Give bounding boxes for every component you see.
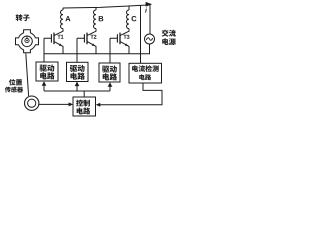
wire current sensor to control box (100, 83, 163, 105)
AC source circle (145, 34, 155, 44)
driver3 text line1 (102, 66, 117, 73)
winding label B (99, 16, 104, 21)
driver1 text line1 (39, 65, 54, 72)
transistor T3 gate wire (110, 38, 117, 63)
wire from top bus down to current sensor box (140, 5, 142, 63)
wire AC source to bottom bus and current sensor (149, 44, 151, 54)
wire stub coil A to bus (62, 8, 64, 10)
current sensor box (129, 63, 162, 83)
wire rail to driver2 with arrow (76, 82, 78, 91)
top DC bus wire (63, 5, 150, 8)
wire position sensor to control box with arrow (39, 103, 70, 105)
driver box 1 (36, 62, 58, 81)
wire stub coil B to bus (95, 7, 97, 10)
transistor T2 emitter lead with arrow (87, 41, 96, 53)
wire rail to driver1 with arrow (43, 82, 45, 91)
driver2 text line1 (70, 65, 85, 72)
driver3 text line2 (103, 73, 117, 80)
transistor T2 body bar (86, 33, 88, 45)
motor center dot (26, 40, 28, 42)
phase winding B (94, 10, 96, 29)
control box (73, 97, 96, 116)
transistor T1 gate bar (50, 34, 52, 42)
motor rotor circle (25, 39, 29, 43)
wire from bus down to AC source (149, 5, 151, 34)
driver box 3 (99, 63, 120, 82)
AC sine symbol (146, 38, 152, 40)
motor inner circle (22, 36, 33, 47)
motor rotor tick (26, 36, 28, 39)
phase winding C (127, 10, 129, 29)
phase winding A (61, 10, 63, 29)
transistor T2 gate wire (77, 38, 84, 62)
transistor T3 designator (123, 35, 129, 39)
wire rail to driver3 with arrow (109, 83, 111, 91)
transistor T2 designator (90, 35, 96, 39)
transistor T3 emitter lead with arrow (120, 41, 129, 53)
current label i (145, 8, 147, 13)
winding label A (65, 16, 70, 21)
position sensor text line2 (5, 87, 23, 93)
transistor T3 body bar (119, 33, 121, 45)
transistor T1 body bar (53, 33, 55, 45)
AC source text line2 (162, 38, 176, 45)
rotor text (16, 14, 30, 21)
motor shaft wire to position sensor (26, 53, 29, 96)
wire stub coil C to bus (128, 6, 130, 10)
transistor T1 collector lead (54, 29, 63, 36)
position sensor text line1 (9, 79, 22, 85)
winding label C (132, 16, 137, 21)
transistor T1 emitter lead with arrow (54, 41, 63, 53)
driver1 text line2 (40, 72, 54, 79)
transistor T3 collector lead (120, 29, 129, 36)
control text line2 (77, 108, 91, 115)
current sensor text line1 (132, 65, 159, 72)
transistor T2 gate bar (83, 34, 85, 42)
position sensor inner circle (28, 99, 36, 107)
AC source text line1 (162, 30, 176, 37)
gate drive rail wire (44, 91, 110, 97)
driver2 text line2 (70, 72, 84, 79)
transistor T1 designator (57, 35, 63, 39)
driver box 2 (67, 62, 89, 81)
motor stator outline (16, 30, 39, 53)
transistor T1 gate wire (44, 38, 51, 62)
current sensor text line2 (139, 74, 151, 80)
transistor T2 collector lead (87, 29, 96, 36)
current direction arrow on top bus (146, 2, 153, 7)
bottom return bus wire (44, 53, 150, 55)
control text line1 (76, 100, 90, 107)
position sensor outer circle (25, 96, 39, 110)
transistor T3 gate bar (116, 34, 118, 42)
